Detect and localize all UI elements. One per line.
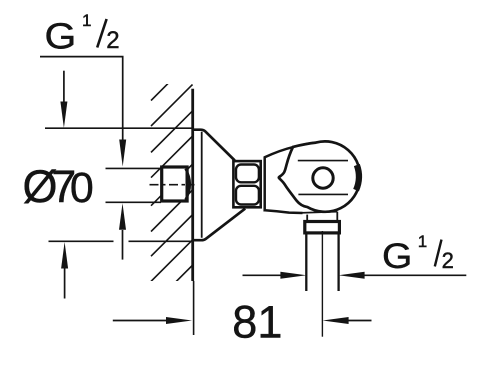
arrow top G1/2 down (119, 140, 126, 167)
hex nut upper flat (236, 165, 259, 183)
inlet union end arc (186, 169, 190, 200)
valve body bottom edge (264, 210, 303, 213)
inlet pipe stub (106, 167, 162, 169)
outlet neck sides (306, 215, 308, 221)
escutcheon cone top edge (192, 130, 235, 161)
handle screw circle (313, 168, 333, 188)
dim G1/2 top, bottom arrow up (122, 230, 124, 260)
label G right (382, 236, 412, 276)
dim81 line right (349, 320, 372, 322)
svg-text:81: 81 (232, 296, 282, 347)
outlet neck top line (300, 212, 337, 213)
svg-text:1: 1 (82, 11, 91, 30)
dim70 arrow down (63, 71, 65, 104)
head chord line bottom (298, 193, 348, 195)
inlet centerline (150, 184, 195, 186)
dim pipe line left (243, 274, 284, 276)
side cap (353, 164, 362, 192)
svg-text:2: 2 (106, 27, 119, 54)
label slash right (435, 240, 442, 267)
valve body fill (265, 141, 360, 213)
inlet union square (162, 167, 187, 201)
label G top (45, 16, 77, 57)
pipe centerline (321, 231, 323, 337)
svg-text:G: G (382, 236, 412, 276)
valve body left and top edges (265, 143, 316, 212)
dim pipe line right (362, 274, 466, 276)
dim81 line left (113, 320, 166, 322)
leader line top G1/2 (40, 57, 123, 140)
escutcheon face line (201, 132, 203, 238)
outlet flange (305, 222, 340, 233)
extension line dim70 top (45, 127, 193, 129)
svg-text:1: 1 (418, 232, 427, 251)
svg-text:2: 2 (442, 248, 454, 273)
svg-text:0: 0 (70, 164, 94, 212)
hex nut body (233, 161, 260, 207)
extension line dim70 bottom (49, 240, 114, 242)
svg-text:G: G (45, 16, 77, 57)
valve head with spout notch (279, 141, 360, 211)
head chord line top (298, 160, 348, 162)
dim70 arrow up (64, 268, 66, 299)
wall face line (191, 89, 194, 281)
outlet pipe (305, 234, 307, 291)
hex nut lower flat (236, 186, 259, 205)
label slash top (97, 19, 106, 48)
escutcheon cone bottom edge (192, 209, 245, 241)
wall extension line for dim81 (193, 281, 195, 335)
